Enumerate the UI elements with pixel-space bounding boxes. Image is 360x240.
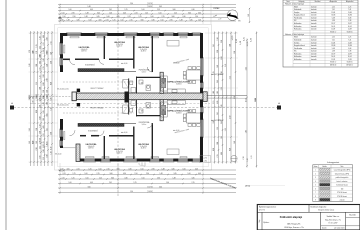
party wall extension line (left): [30, 95, 72, 97]
svg-text:0,30: 0,30: [36, 110, 38, 113]
svg-text:1,48: 1,48: [247, 158, 249, 161]
svg-text:13,97: 13,97: [348, 53, 352, 55]
svg-text:1,50: 1,50: [234, 51, 236, 54]
svg-text:+0,00: +0,00: [175, 130, 179, 132]
svg-text:3,45: 3,45: [39, 46, 41, 49]
svg-text:0,30: 0,30: [123, 173, 126, 175]
svg-text:['16,36']: ['16,36']: [147, 191, 153, 193]
svg-text:1,25: 1,25: [36, 44, 38, 47]
diagonal grading note: [209, 177, 251, 190]
svg-text:1,38: 1,38: [332, 20, 335, 22]
svg-text:7,41: 7,41: [348, 9, 351, 11]
svg-text:3,60: 3,60: [229, 116, 231, 119]
svg-text:3,45: 3,45: [39, 146, 41, 149]
svg-text:1,25: 1,25: [72, 173, 75, 175]
svg-text:+0,00: +0,00: [57, 154, 61, 156]
svg-text:11,48: 11,48: [331, 42, 335, 44]
bath fixtures upper unit: [123, 80, 151, 93]
svg-text:31,86: 31,86: [331, 15, 335, 17]
svg-text:3,45x2,90: 3,45x2,90: [116, 151, 123, 153]
svg-text:1,48: 1,48: [36, 141, 38, 144]
terrace back wall lower: [78, 123, 124, 126]
svg-text:11,48: 11,48: [348, 12, 352, 14]
svg-text:Hálószoba: Hálószoba: [294, 26, 301, 28]
svg-text:Szalkai Tibor e.v.: Szalkai Tibor e.v.: [327, 215, 340, 218]
svg-text:1,50: 1,50: [43, 90, 45, 93]
svg-text:Építtető megnevezése:: Építtető megnevezése:: [259, 205, 277, 208]
top dimension chains: [58, 3, 236, 24]
svg-text:1,06: 1,06: [198, 20, 201, 22]
svg-text:3,60: 3,60: [111, 178, 114, 180]
svg-text:1,06: 1,06: [68, 9, 71, 11]
svg-text:föld: föld: [341, 188, 344, 190]
svg-text:3,45x3,30: 3,45x3,30: [140, 49, 147, 51]
svg-text:0,30: 0,30: [191, 9, 194, 11]
svg-text:11,39: 11,39: [348, 59, 352, 61]
svg-text:2,41: 2,41: [39, 67, 41, 70]
svg-text:14,05: 14,05: [232, 35, 234, 41]
svg-text:1,25: 1,25: [332, 37, 335, 39]
svg-text:1,00: 1,00: [217, 142, 219, 145]
door swing arcs: [70, 59, 153, 135]
svg-text:1,00: 1,00: [39, 87, 41, 90]
svg-text:(XY, YY): (XY, YY): [259, 210, 265, 212]
faint extension line near legend: [249, 185, 285, 187]
svg-text:HÁLÓSZOBA: HÁLÓSZOBA: [138, 46, 149, 49]
svg-text:4,05: 4,05: [195, 169, 198, 171]
svg-text:1,06: 1,06: [109, 13, 112, 15]
right wall terrace door lower: [200, 107, 203, 113]
svg-text:2,90: 2,90: [46, 78, 48, 81]
svg-text:1,48: 1,48: [159, 173, 162, 175]
legend table: [313, 161, 353, 202]
svg-text:1,25: 1,25: [43, 141, 45, 144]
svg-text:0,30: 0,30: [128, 169, 131, 171]
svg-text:1,48: 1,48: [66, 20, 69, 22]
svg-text:1,48: 1,48: [32, 50, 34, 53]
svg-text:1,50: 1,50: [50, 107, 52, 110]
svg-text:0,30: 0,30: [229, 148, 231, 151]
svg-text:1,00: 1,00: [166, 182, 169, 184]
svg-text:1,50: 1,50: [62, 16, 65, 18]
room labels lower unit: [86, 143, 97, 150]
svg-text:3,60: 3,60: [50, 61, 52, 64]
circle symbol right of plan: [231, 155, 237, 161]
svg-text:2,15: 2,15: [36, 82, 38, 85]
svg-text:1,00: 1,00: [229, 44, 231, 47]
top wall windows: [67, 33, 81, 36]
svg-text:1,25: 1,25: [71, 178, 74, 180]
svg-text:Közlekedő: Közlekedő: [294, 9, 301, 11]
svg-text:2,90: 2,90: [130, 3, 133, 5]
terrace roof edge dashed (lower): [63, 112, 134, 114]
svg-text:1,06: 1,06: [46, 102, 48, 105]
svg-text:2,41: 2,41: [251, 155, 253, 158]
svg-text:1,25: 1,25: [112, 20, 115, 22]
svg-text:4,05: 4,05: [90, 182, 93, 184]
svg-text:1,06: 1,06: [217, 91, 219, 94]
svg-text:Rajz: Rajz: [259, 219, 261, 222]
svg-text:4,05: 4,05: [198, 173, 201, 175]
svg-text:3,45: 3,45: [96, 16, 99, 18]
svg-text:WC: WC: [141, 83, 143, 85]
svg-text:4,05: 4,05: [98, 20, 101, 22]
dining table upper unit: [183, 67, 200, 84]
room labels upper unit: [79, 46, 90, 53]
svg-text:3,60: 3,60: [172, 9, 175, 11]
svg-text:2,41: 2,41: [109, 9, 112, 11]
svg-text:HÁLÓSZOBA: HÁLÓSZOBA: [79, 46, 90, 49]
terrace back wall upper: [78, 69, 124, 72]
svg-text:Konyha: Konyha: [294, 42, 299, 44]
svg-text:3,45: 3,45: [159, 6, 162, 8]
room schedule table: [283, 0, 358, 67]
svg-text:-0,75: -0,75: [61, 171, 65, 173]
svg-text:3,45: 3,45: [189, 20, 192, 22]
interior walls upper unit: [63, 36, 164, 94]
svg-text:0,30: 0,30: [32, 141, 34, 144]
svg-text:0,30: 0,30: [39, 98, 41, 101]
svg-text:1,38: 1,38: [348, 20, 351, 22]
svg-text:0,30: 0,30: [182, 16, 185, 18]
svg-text:2,90: 2,90: [32, 101, 34, 104]
terrace column upper: [77, 89, 80, 92]
svg-text:1,50: 1,50: [36, 128, 38, 131]
svg-text:1,48: 1,48: [248, 14, 250, 17]
svg-text:0,30: 0,30: [43, 82, 45, 85]
left dimension chains: [29, 31, 59, 166]
svg-text:1,48: 1,48: [46, 143, 48, 146]
svg-text:4,05: 4,05: [43, 35, 45, 38]
entrance steps lower unit: [139, 162, 145, 166]
svg-text:1,06: 1,06: [182, 169, 185, 171]
svg-text:3,60: 3,60: [43, 74, 45, 77]
bottom dimension chains: [58, 163, 236, 194]
svg-text:2,90: 2,90: [39, 131, 41, 134]
svg-text:1,48: 1,48: [172, 178, 175, 180]
svg-text:2,15: 2,15: [43, 66, 45, 69]
svg-text:1,48: 1,48: [221, 105, 223, 108]
secondary dashed line below party wall: [30, 103, 210, 105]
svg-text:3,60: 3,60: [109, 173, 112, 175]
svg-text:WC: WC: [141, 111, 143, 113]
svg-text:10,01: 10,01: [331, 56, 335, 58]
svg-text:4,05: 4,05: [46, 113, 48, 116]
svg-text:2,90: 2,90: [29, 50, 31, 53]
svg-text:0,30: 0,30: [213, 148, 215, 151]
svg-text:2,90: 2,90: [36, 147, 38, 150]
svg-text:1,50: 1,50: [61, 13, 64, 15]
svg-text:2,41: 2,41: [105, 20, 108, 22]
svg-text:1,25: 1,25: [88, 169, 91, 171]
svg-text:1,50: 1,50: [141, 178, 144, 180]
svg-text:2,15: 2,15: [50, 41, 52, 44]
svg-text:1,06: 1,06: [245, 130, 247, 133]
svg-text:1,25: 1,25: [145, 13, 148, 15]
svg-text:2,90: 2,90: [50, 132, 52, 135]
svg-text:31,86: 31,86: [348, 15, 352, 17]
right wall terrace door upper: [200, 58, 203, 76]
svg-text:2,90: 2,90: [243, 156, 245, 159]
svg-text:2,90: 2,90: [217, 50, 219, 53]
svg-text:+0,00: +0,00: [123, 63, 127, 65]
svg-text:4,05x3,45: 4,05x3,45: [88, 146, 95, 148]
svg-text:1,50: 1,50: [46, 64, 48, 67]
svg-text:1,25: 1,25: [348, 6, 351, 8]
svg-text:2,90: 2,90: [71, 13, 74, 15]
svg-text:1,00: 1,00: [84, 173, 87, 175]
svg-text:2,41: 2,41: [213, 44, 215, 47]
svg-text:1,00: 1,00: [120, 20, 123, 22]
svg-text:7,41: 7,41: [332, 9, 335, 11]
party wall end bracket left: [72, 92, 76, 101]
svg-text:Kivitelezés helyszíne:: Kivitelezés helyszíne:: [311, 205, 328, 208]
svg-text:M=1:100: M=1:100: [349, 215, 355, 217]
svg-text:3,45: 3,45: [217, 80, 219, 83]
svg-text:Hálószoba: Hálószoba: [294, 23, 301, 25]
svg-text:1,48: 1,48: [29, 97, 31, 100]
svg-text:1,48: 1,48: [87, 6, 90, 8]
svg-text:4,05: 4,05: [43, 125, 45, 128]
svg-text:2,15: 2,15: [161, 16, 164, 18]
svg-text:HÁLÓSZOBA: HÁLÓSZOBA: [138, 143, 149, 146]
svg-text:1,50: 1,50: [140, 169, 143, 171]
svg-text:4,05: 4,05: [221, 152, 223, 155]
svg-text:5,08: 5,08: [348, 17, 351, 19]
svg-text:3,60: 3,60: [39, 105, 41, 108]
svg-text:11,48: 11,48: [331, 12, 335, 14]
bath fixtures lower unit: [123, 101, 151, 114]
svg-text:2,15: 2,15: [229, 76, 231, 79]
svg-text:2,90: 2,90: [46, 94, 48, 97]
sofa lower unit: [167, 149, 179, 155]
svg-text:1,50: 1,50: [134, 173, 137, 175]
svg-text:2,90: 2,90: [157, 178, 160, 180]
svg-text:ÉSZAK: ÉSZAK: [214, 7, 221, 10]
svg-text:1,25: 1,25: [133, 182, 136, 184]
svg-text:7,41: 7,41: [348, 39, 351, 41]
svg-text:1,25: 1,25: [138, 16, 141, 18]
svg-text:3,45: 3,45: [43, 110, 45, 113]
svg-text:11,39: 11,39: [331, 59, 335, 61]
svg-text:31,86: 31,86: [331, 45, 335, 47]
svg-text:1,48: 1,48: [29, 141, 31, 144]
svg-text:3,60: 3,60: [87, 187, 90, 189]
party wall extension fence (right): [207, 95, 247, 97]
svg-text:Hálószoba: Hálószoba: [294, 29, 301, 31]
svg-text:2,41: 2,41: [127, 16, 130, 18]
dining table lower unit: [183, 110, 200, 127]
right wall pier lower: [200, 113, 203, 120]
svg-text:2,15: 2,15: [157, 9, 160, 11]
svg-text:+0,00 (-0,15): +0,00 (-0,15): [59, 89, 69, 91]
title block: [257, 205, 360, 231]
right exterior wall: [200, 33, 203, 162]
svg-text:Földszinti alaprajz: Földszinti alaprajz: [280, 215, 303, 219]
svg-text:3,45x2,90: 3,45x2,90: [116, 44, 123, 46]
svg-text:1,25: 1,25: [225, 128, 227, 131]
svg-text:3,45: 3,45: [29, 128, 31, 131]
svg-text:0,30: 0,30: [159, 187, 162, 189]
svg-text:1,06: 1,06: [43, 145, 45, 148]
svg-text:1,48: 1,48: [39, 138, 41, 141]
svg-text:HÁLÓSZOBA: HÁLÓSZOBA: [114, 41, 125, 44]
svg-text:0,30: 0,30: [151, 20, 154, 22]
svg-text:['16,36']: ['16,36']: [147, 6, 153, 8]
svg-text:1,48: 1,48: [50, 151, 52, 154]
svg-text:3,60: 3,60: [140, 20, 143, 22]
svg-text:1,50: 1,50: [130, 191, 133, 193]
svg-text:7,41: 7,41: [332, 39, 335, 41]
svg-text:4,05: 4,05: [66, 169, 69, 171]
svg-text:Baja, Bercsényi u. 7/a: Baja, Bercsényi u. 7/a: [325, 219, 341, 221]
svg-text:2,90: 2,90: [221, 87, 223, 90]
svg-text:16,36: 16,36: [245, 98, 247, 102]
svg-text:2,90: 2,90: [46, 52, 48, 55]
svg-text:2,15: 2,15: [217, 154, 219, 157]
svg-text:3,60: 3,60: [46, 37, 48, 40]
svg-text:2,41: 2,41: [46, 128, 48, 131]
small flag marker top-left of plan: [58, 16, 62, 18]
svg-text:0,30: 0,30: [39, 116, 41, 119]
svg-text:3,45: 3,45: [76, 20, 79, 22]
porch lintel lower: [63, 147, 76, 149]
svg-text:2,41: 2,41: [109, 182, 112, 184]
svg-text:4,05x3,45: 4,05x3,45: [81, 49, 88, 51]
svg-text:3,60: 3,60: [221, 40, 223, 43]
kitchen counter upper unit: [161, 76, 185, 93]
svg-text:2,90: 2,90: [50, 52, 52, 55]
bottom right corner elevation box: [200, 156, 211, 163]
party wall (hatched): [76, 93, 203, 100]
svg-text:1,48: 1,48: [234, 141, 236, 144]
svg-text:11,39: 11,39: [348, 29, 352, 31]
svg-text:1,50: 1,50: [217, 37, 219, 40]
terrace column lower: [77, 103, 80, 106]
svg-text:2,90: 2,90: [60, 20, 63, 22]
gutter inner outline: [58, 28, 208, 167]
svg-text:2,90: 2,90: [151, 169, 154, 171]
svg-text:HÁLÓSZOBA: HÁLÓSZOBA: [86, 143, 97, 146]
svg-text:31,86: 31,86: [348, 45, 352, 47]
svg-text:1,25: 1,25: [124, 9, 127, 11]
svg-text:2,90: 2,90: [39, 141, 41, 144]
svg-text:Hálószoba: Hálószoba: [294, 56, 301, 58]
svg-text:1,00: 1,00: [85, 178, 88, 180]
svg-text:Hálószoba: Hálószoba: [294, 53, 301, 55]
svg-text:1,48: 1,48: [85, 13, 88, 15]
svg-text:1,00: 1,00: [43, 149, 45, 152]
svg-text:1,06: 1,06: [106, 16, 109, 18]
top exterior wall: [60, 33, 203, 36]
svg-text:3,45: 3,45: [97, 13, 100, 15]
svg-text:3,60: 3,60: [188, 13, 191, 15]
svg-text:2,41: 2,41: [76, 169, 79, 171]
svg-text:Név: Név: [341, 166, 344, 168]
svg-text:2,90: 2,90: [72, 16, 75, 18]
svg-text:zsalukő: zsalukő: [340, 200, 345, 202]
svg-text:1,48: 1,48: [84, 16, 87, 18]
svg-text:1,25: 1,25: [348, 37, 351, 39]
svg-text:2,41: 2,41: [43, 42, 45, 45]
svg-text:3,60: 3,60: [171, 16, 174, 18]
svg-text:11,39: 11,39: [331, 29, 335, 31]
chimney block on party wall: [125, 92, 130, 103]
bottom wall windows: [84, 159, 95, 162]
svg-text:4,05: 4,05: [39, 61, 41, 64]
interior walls lower unit: [80, 100, 164, 160]
west wall of lower unit (stepped corner): [76, 144, 80, 162]
right wall pier upper: [200, 76, 203, 83]
svg-text:Hálószoba: Hálószoba: [294, 59, 301, 61]
svg-text:13,97: 13,97: [331, 23, 335, 25]
svg-text:5,08: 5,08: [332, 48, 335, 50]
svg-text:2,15: 2,15: [99, 178, 102, 180]
svg-text:Jelmagyarázat: Jelmagyarázat: [327, 161, 340, 164]
svg-text:+0,00: +0,00: [175, 63, 179, 65]
svg-text:+0,00 (-0,15): +0,00 (-0,15): [59, 105, 69, 107]
section flag right: [277, 106, 281, 110]
svg-text:5,08: 5,08: [348, 48, 351, 50]
svg-text:2,41: 2,41: [61, 178, 64, 180]
svg-text:1,00: 1,00: [43, 58, 45, 61]
svg-text:Jelölés: Jelölés: [322, 166, 327, 168]
svg-text:4,05: 4,05: [123, 13, 126, 15]
svg-text:0,30: 0,30: [36, 94, 38, 97]
svg-text:2,15: 2,15: [43, 157, 45, 160]
svg-text:1,48: 1,48: [39, 55, 41, 58]
svg-text:1,25: 1,25: [217, 127, 219, 130]
roof eaves outline: [55, 25, 212, 171]
svg-text:['15,76']: ['15,76']: [147, 187, 153, 189]
svg-text:-0,75: -0,75: [203, 158, 207, 160]
sofa upper unit: [167, 41, 179, 47]
svg-text:1,06: 1,06: [187, 173, 190, 175]
svg-text:2,41: 2,41: [62, 173, 65, 175]
svg-text:0,30: 0,30: [124, 178, 127, 180]
svg-text:2,15: 2,15: [174, 13, 177, 15]
svg-text:1,06: 1,06: [68, 182, 71, 184]
svg-text:6500 Baja, Szarvas u. 7/b: 6500 Baja, Szarvas u. 7/b: [284, 226, 303, 229]
left exterior wall upper: [60, 33, 63, 72]
section flag left: [10, 106, 14, 110]
svg-text:4,05: 4,05: [90, 9, 93, 11]
svg-text:1,00: 1,00: [150, 16, 153, 18]
right dimension chains: [205, 32, 257, 168]
svg-text:2,15: 2,15: [213, 101, 215, 104]
kitchen counter lower unit: [161, 100, 185, 117]
svg-text:1,25: 1,25: [39, 75, 41, 78]
svg-text:0,30: 0,30: [50, 147, 52, 150]
svg-text:0,30: 0,30: [198, 13, 201, 15]
svg-text:2,90: 2,90: [43, 96, 45, 99]
svg-text:1,48: 1,48: [43, 102, 45, 105]
svg-text:13,97: 13,97: [331, 53, 335, 55]
svg-text:1,00: 1,00: [141, 9, 144, 11]
svg-text:16,36: 16,36: [247, 41, 249, 47]
svg-text:1,38: 1,38: [332, 51, 335, 53]
svg-text:1,48: 1,48: [39, 36, 41, 39]
svg-text:1,06: 1,06: [88, 20, 91, 22]
svg-text:3,45: 3,45: [245, 67, 247, 70]
svg-text:3,45x3,30: 3,45x3,30: [140, 146, 147, 148]
svg-text:+0,00: +0,00: [123, 132, 127, 134]
svg-text:2,90: 2,90: [43, 48, 45, 51]
svg-text:2,90: 2,90: [36, 51, 38, 54]
svg-text:3,45: 3,45: [173, 173, 176, 175]
svg-text:2,41: 2,41: [134, 13, 137, 15]
svg-text:1,00: 1,00: [98, 169, 101, 171]
